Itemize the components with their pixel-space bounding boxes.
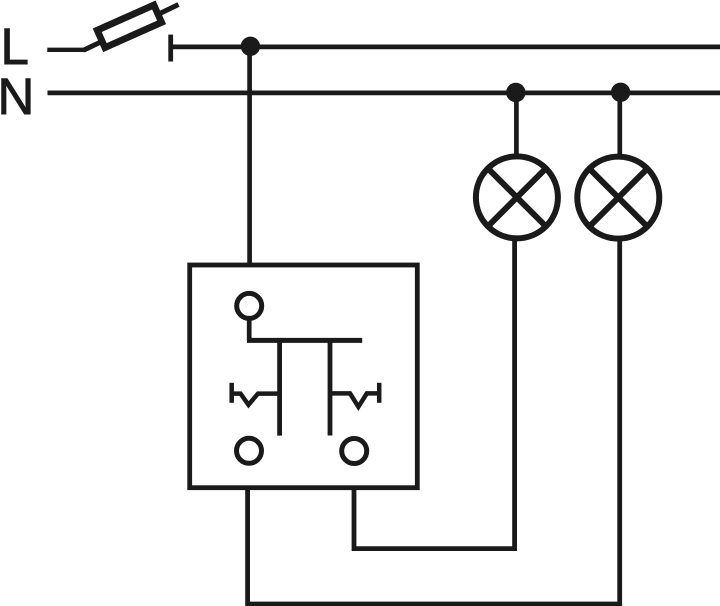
svg-text:L: L	[1, 18, 29, 75]
svg-text:N: N	[0, 68, 34, 125]
